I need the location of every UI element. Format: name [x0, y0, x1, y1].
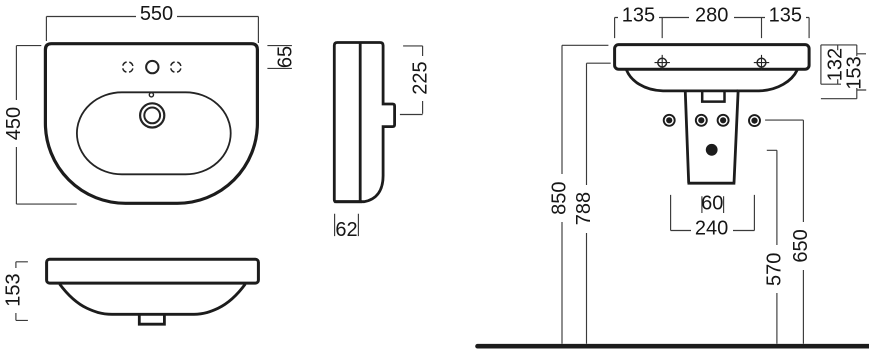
plan view: waste hole outer	[140, 103, 164, 127]
svg-text:153: 153	[3, 273, 25, 306]
installation view: fixing dot 4	[749, 115, 760, 126]
installation view: drain centre dot	[706, 144, 718, 156]
installation view: semi-pedestal	[685, 90, 738, 184]
svg-text:60: 60	[701, 193, 723, 215]
dimension 153 (front view) line	[16, 262, 28, 321]
svg-text:570: 570	[764, 253, 786, 286]
dimension 60 ticks	[702, 196, 724, 213]
plan view: overflow hole	[149, 93, 153, 97]
dimension 570 line	[767, 150, 777, 343]
svg-text:153: 153	[844, 56, 866, 89]
svg-text:225: 225	[409, 61, 431, 94]
plan view: inner basin rim	[77, 92, 231, 174]
svg-text:135: 135	[769, 4, 802, 26]
dimension 240 line	[671, 195, 755, 231]
svg-text:240: 240	[695, 218, 728, 240]
front view: waste trap	[139, 314, 164, 324]
dimension 225 line	[400, 46, 423, 115]
dimension 62 ticks	[335, 214, 359, 236]
svg-text:788: 788	[573, 192, 595, 225]
installation view: fixing dot 2	[696, 115, 707, 126]
floor line	[478, 344, 869, 349]
plan view: right tap hole (dashed)	[171, 62, 181, 72]
installation view: bowl underside	[627, 70, 798, 91]
installation view: fixing dot 3	[718, 115, 729, 126]
svg-text:450: 450	[3, 107, 25, 140]
side view: rim inner line	[359, 43, 362, 202]
svg-text:135: 135	[622, 4, 655, 26]
svg-text:550: 550	[140, 3, 173, 25]
plan view: centre tap hole	[146, 61, 158, 73]
installation view: right fixing crosshair	[754, 55, 769, 70]
dimension 650 line	[765, 120, 803, 344]
dimension 132-153 brackets	[821, 45, 866, 99]
svg-text:650: 650	[790, 229, 812, 262]
dimension 550 line	[46, 17, 258, 44]
plan view: basin outer outline	[45, 44, 257, 204]
svg-text:62: 62	[335, 219, 357, 241]
plan view: left tap hole (dashed)	[123, 62, 133, 72]
installation view: waste outlet box	[702, 91, 724, 102]
plan view: waste hole inner	[144, 108, 160, 124]
svg-text:280: 280	[695, 4, 728, 26]
side view: body outline	[334, 43, 394, 202]
side view: bottom edge	[334, 200, 362, 203]
dimension 450 line	[16, 46, 76, 205]
installation view: left fixing crosshair	[655, 55, 670, 70]
installation view: rim	[615, 45, 810, 70]
installation view: fixing dot 1	[664, 115, 675, 126]
svg-text:65: 65	[274, 46, 296, 68]
dimension 65 ticks	[267, 46, 292, 69]
front view: bowl profile	[60, 284, 246, 314]
dimension 135-280-135 line	[615, 18, 810, 39]
dimension 788 line	[587, 63, 611, 344]
svg-text:850: 850	[549, 182, 571, 215]
dimension 850 line	[562, 45, 608, 344]
front view: rim	[47, 259, 259, 283]
